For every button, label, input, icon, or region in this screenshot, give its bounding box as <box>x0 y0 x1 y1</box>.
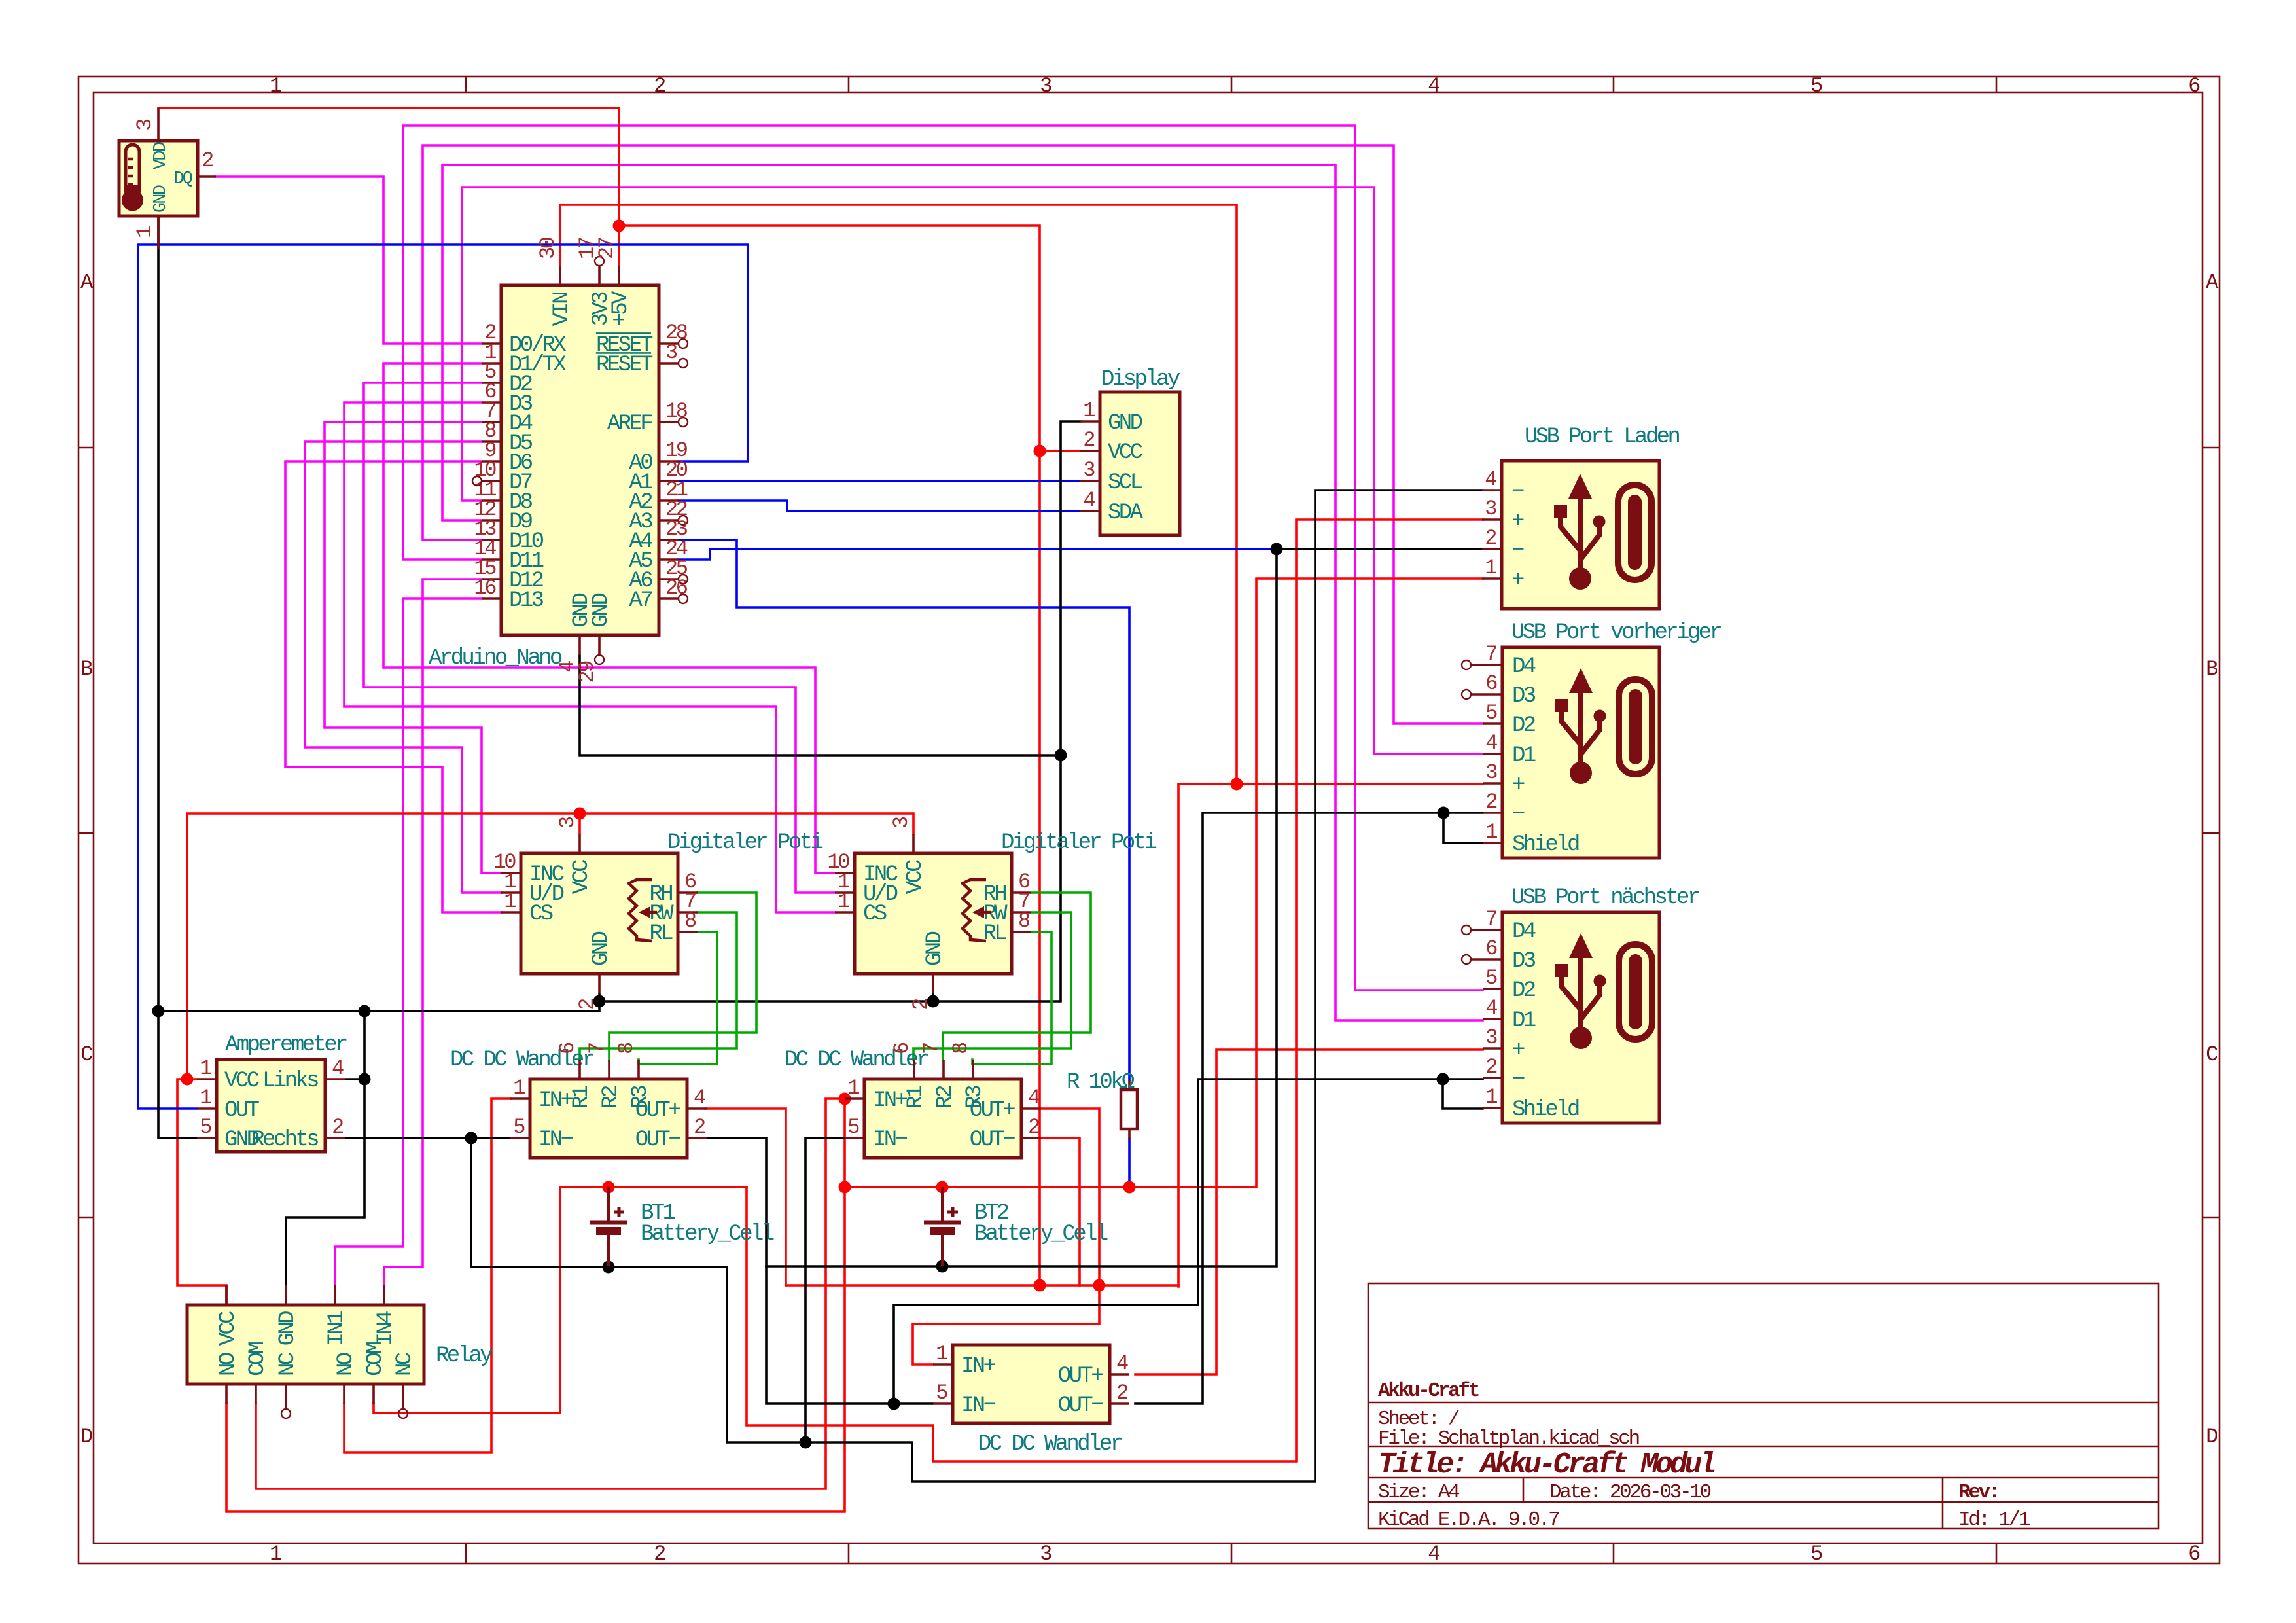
svg-text:Digitaler Poti: Digitaler Poti <box>667 830 822 855</box>
wire D11 to USB naechster D2 (magenta) <box>403 126 1483 990</box>
DC DC Wandler 2 pin 6 R1 <box>913 1060 915 1079</box>
svg-text:7: 7 <box>1485 907 1496 931</box>
svg-text:2: 2 <box>694 1115 705 1139</box>
junction vorheriger plus <box>1231 778 1243 791</box>
svg-text:GND: GND <box>1108 411 1142 436</box>
junction BT2 minus <box>936 1260 949 1273</box>
svg-text:USB Port nächster: USB Port nächster <box>1511 885 1699 910</box>
Relay bottom pin NC at 437 <box>285 1384 287 1408</box>
junction +5V <box>613 220 626 232</box>
svg-text:1: 1 <box>133 226 157 238</box>
svg-text:16: 16 <box>474 576 496 600</box>
DC DC Wandler 3 pin 1 IN+ <box>933 1363 953 1366</box>
Digitaler Poti 1 pin 8 RL <box>678 931 698 933</box>
wire DCDC2 IN- feed (black) <box>805 1138 845 1442</box>
Digitaler Poti 1 pin 1 CS <box>501 911 521 914</box>
svg-text:VCC: VCC <box>1108 440 1142 465</box>
wire Poti1 VCC drop (red) <box>578 813 581 834</box>
wire DCDC3 OUT+ to USB naechster plus (red) <box>1135 1050 1483 1374</box>
wire Display VCC stub join (red) <box>1040 450 1080 452</box>
wire VIN rail (red) <box>560 205 1237 784</box>
svg-text:8: 8 <box>684 909 696 933</box>
junction BT2 plus <box>936 1181 949 1194</box>
svg-text:Id: 1/1: Id: 1/1 <box>1958 1508 2030 1531</box>
svg-text:KiCad E.D.A. 9.0.7: KiCad E.D.A. 9.0.7 <box>1378 1508 1559 1531</box>
svg-text:IN−: IN− <box>539 1128 573 1152</box>
Arduino pin 18 AREF <box>659 421 679 423</box>
USB vorheriger pin 1 Shield <box>1483 842 1502 844</box>
svg-text:R2: R2 <box>933 1086 958 1109</box>
svg-text:GND: GND <box>151 185 171 213</box>
junction Amperemeter VCC <box>181 1073 194 1086</box>
svg-text:5: 5 <box>847 1115 859 1139</box>
USB Port nächster usb icon <box>1555 933 1606 1049</box>
svg-text:6: 6 <box>1485 936 1497 961</box>
svg-text:1: 1 <box>270 74 281 98</box>
USB Laden pin 3 + <box>1482 518 1502 521</box>
USB naechster pin 3 + <box>1483 1047 1502 1050</box>
svg-text:Rev:: Rev: <box>1958 1481 1998 1504</box>
wire D3 to Poti2 CS (magenta) <box>344 402 835 912</box>
junction minus top <box>1271 543 1283 556</box>
svg-text:VCC: VCC <box>569 860 594 895</box>
Digitaler Poti 2 pin 1 U/D <box>835 891 855 894</box>
svg-text:NO: NO <box>216 1353 241 1376</box>
svg-text:RL: RL <box>649 921 673 946</box>
wire BT2 minus rail (black) <box>766 549 1483 1266</box>
wire D2 to Poti2 U/D (magenta) <box>364 383 835 893</box>
Digitaler Poti 2 pin 2 GND <box>932 974 934 993</box>
DC DC Wandler 2 body <box>864 1079 1021 1158</box>
svg-text:Relay: Relay <box>436 1344 493 1368</box>
junction Links <box>359 1073 371 1086</box>
svg-text:NC: NC <box>393 1353 417 1376</box>
USB naechster pin 1 Shield <box>1483 1107 1502 1109</box>
svg-text:D2: D2 <box>1512 713 1535 738</box>
wire OUT rail (red) <box>786 1284 1178 1287</box>
Relay bottom pin COM at 571 <box>372 1384 375 1404</box>
svg-text:A7: A7 <box>629 588 652 613</box>
wire Rechts IN- rail (black) <box>345 1137 510 1139</box>
svg-text:NC: NC <box>275 1353 300 1376</box>
svg-text:3: 3 <box>889 817 913 829</box>
resistor R1 leads <box>1128 1080 1131 1090</box>
svg-text:AREF: AREF <box>607 412 652 437</box>
DC DC Wandler 1 pin 6 R1 <box>578 1060 581 1079</box>
battery BT2 plus sign <box>947 1211 958 1214</box>
USB naechster pin 4 D1 <box>1483 1018 1502 1020</box>
wire A1 to Display SCL (blue) <box>679 480 1080 482</box>
svg-text:VCC: VCC <box>224 1069 259 1094</box>
Digitaler Poti 2 pin 7 RW <box>1012 911 1031 914</box>
svg-text:2: 2 <box>1485 526 1496 550</box>
Amperemeter pin 4 Links <box>325 1078 345 1080</box>
wire Poti1 GND stub (black) <box>598 993 601 1001</box>
wire Poti2 GND stub (black) <box>932 993 934 1001</box>
junction Poti2 GND <box>927 995 940 1008</box>
Arduino pin 25 A6 <box>659 578 679 580</box>
USB Laden pin 1 + <box>1482 577 1502 580</box>
wire Links stub (black) <box>345 1078 364 1080</box>
Arduino pin 1 D1/TX <box>482 362 501 365</box>
border column ticks bottom <box>465 1543 467 1563</box>
wire A4 to R 10k (blue) <box>679 540 1129 1080</box>
svg-text:IN−: IN− <box>873 1128 908 1152</box>
Digitaler Poti 1 pin 1 U/D <box>501 891 521 894</box>
junction OUT rail a <box>1034 1279 1046 1292</box>
Arduino pin 27 +5V <box>618 266 620 285</box>
Digitaler Poti 1 pin 7 RW <box>678 911 698 914</box>
svg-text:26: 26 <box>665 576 688 600</box>
svg-text:1: 1 <box>847 1076 859 1100</box>
svg-text:5: 5 <box>1485 701 1497 725</box>
svg-text:4: 4 <box>1428 74 1439 98</box>
Display pin 2 VCC <box>1080 450 1100 452</box>
USB vorheriger pin 6 D3 <box>1472 693 1502 696</box>
wire GND rail left (black) <box>158 1001 599 1011</box>
svg-text:3: 3 <box>1485 1026 1497 1050</box>
junction GND display <box>1055 749 1067 762</box>
svg-text:R3: R3 <box>628 1086 653 1109</box>
junction Poti1 GND <box>593 995 606 1008</box>
title block column dividers <box>1523 1478 1525 1502</box>
USB vorheriger pin 7 D4 <box>1472 664 1502 666</box>
svg-text:IN+: IN+ <box>873 1088 908 1113</box>
DC DC Wandler 2 pin 2 OUT- <box>1021 1137 1041 1139</box>
svg-text:5: 5 <box>1810 74 1822 98</box>
wire GND arduino display (black) <box>580 655 1061 755</box>
wire A0 to Amperemeter OUT (blue) <box>138 245 748 1109</box>
svg-text:2: 2 <box>332 1115 343 1139</box>
svg-text:2: 2 <box>654 1542 665 1566</box>
Arduino pin 5 D2 <box>482 382 501 384</box>
wire Relay COM2 to BT1 plus (red) <box>374 1187 560 1413</box>
svg-text:D4: D4 <box>1512 919 1536 944</box>
title block frame <box>1368 1283 2159 1529</box>
svg-text:D4: D4 <box>1512 654 1536 679</box>
DC DC Wandler 1 pin 1 IN+ <box>510 1097 530 1100</box>
battery BT2 body <box>941 1187 944 1221</box>
svg-text:OUT−: OUT− <box>635 1128 680 1152</box>
svg-text:Title: Akku-Craft Modul: Title: Akku-Craft Modul <box>1378 1448 1715 1482</box>
svg-text:−: − <box>1511 480 1524 505</box>
svg-text:IN4: IN4 <box>374 1311 398 1346</box>
svg-text:4: 4 <box>1083 488 1095 512</box>
svg-text:R2: R2 <box>599 1086 624 1109</box>
svg-text:30: 30 <box>536 237 560 259</box>
svg-text:1: 1 <box>513 1076 525 1100</box>
wire DCDC1 OUT+ drop (red) <box>706 1109 786 1285</box>
svg-text:Display: Display <box>1101 367 1180 392</box>
Relay top pin IN4 <box>383 1285 385 1305</box>
DC DC Wandler 2 pin 4 OUT+ <box>1021 1107 1041 1110</box>
svg-text:IN−: IN− <box>961 1393 996 1418</box>
svg-text:−: − <box>1512 802 1525 827</box>
Digitaler Poti 2 pin 8 RL <box>1012 931 1031 933</box>
svg-text:7: 7 <box>1485 642 1496 666</box>
svg-text:File: Schaltplan.kicad_sch: File: Schaltplan.kicad_sch <box>1378 1427 1639 1450</box>
Digitaler Poti 1 body <box>521 853 678 974</box>
svg-text:D: D <box>80 1425 92 1449</box>
Arduino Nano U2 body <box>501 285 659 635</box>
wire Poti2 RW to DCDC2 R1 (green) <box>913 912 1071 1060</box>
wire D6 to Poti1 CS (magenta) <box>285 461 501 912</box>
Arduino pin 9 D6 <box>482 460 501 463</box>
svg-text:4: 4 <box>1485 996 1497 1020</box>
svg-text:D3: D3 <box>1512 684 1536 709</box>
svg-text:6: 6 <box>556 1043 580 1054</box>
Arduino pin 14 D11 <box>482 558 501 561</box>
Arduino pin 22 A3 <box>659 519 679 522</box>
wire A5 to minus junction (blue) <box>679 549 1277 560</box>
svg-text:IN+: IN+ <box>961 1354 996 1379</box>
Arduino pin 23 A4 <box>659 539 679 541</box>
wire USB Laden plus pin1 to BT rail (red) <box>845 579 1483 1187</box>
junction GND temp <box>152 1005 165 1018</box>
Digitaler Poti 1 pin 10 INC <box>501 872 521 874</box>
svg-text:IN1: IN1 <box>325 1311 349 1346</box>
wire GND rail right (black) <box>599 421 1080 1001</box>
svg-text:7: 7 <box>585 1043 609 1054</box>
USB vorheriger pin 3 + <box>1483 782 1502 785</box>
svg-text:−: − <box>1512 1067 1525 1092</box>
border row ticks right <box>2202 447 2219 449</box>
svg-text:GND: GND <box>589 593 614 628</box>
svg-text:1: 1 <box>270 1542 281 1566</box>
svg-text:Battery_Cell: Battery_Cell <box>641 1222 774 1247</box>
wire DCDC3 in- net (black) <box>894 1079 1483 1404</box>
Digitaler Poti 2 pin 3 VCC <box>912 834 915 853</box>
Arduino pin 24 A5 <box>659 558 679 561</box>
svg-text:3: 3 <box>133 119 157 131</box>
svg-text:5: 5 <box>513 1115 525 1139</box>
Relay top pin GND <box>285 1285 287 1305</box>
Amperemeter pin 2 Rechts <box>325 1137 345 1139</box>
wire Poti1 RW to DCDC1 R1 (green) <box>580 912 737 1060</box>
svg-text:1: 1 <box>1485 820 1497 844</box>
svg-text:Links: Links <box>262 1069 318 1094</box>
Digitaler Poti 1 pin 3 VCC <box>578 834 581 853</box>
svg-text:D1: D1 <box>1512 743 1536 768</box>
svg-text:GND: GND <box>275 1311 300 1346</box>
Digitaler Poti 1 pin 2 GND <box>598 974 601 993</box>
svg-text:1: 1 <box>1485 556 1496 580</box>
svg-text:3: 3 <box>1485 497 1496 521</box>
svg-text:USB Port vorheriger: USB Port vorheriger <box>1511 620 1721 645</box>
Arduino pin 6 D3 <box>482 401 501 404</box>
DC DC Wandler 2 pin 1 IN+ <box>845 1097 864 1100</box>
Relay K1 body <box>187 1305 424 1384</box>
svg-text:B: B <box>80 657 92 681</box>
DC DC Wandler 1 pin 2 OUT- <box>687 1137 707 1139</box>
USB naechster pin 6 D3 <box>1472 958 1502 961</box>
Arduino pin 21 A2 <box>659 499 679 502</box>
svg-text:Digitaler Poti: Digitaler Poti <box>1001 830 1156 855</box>
wire D4 to Poti1 INC (magenta) <box>325 422 501 873</box>
Arduino pin 26 A7 <box>659 597 679 600</box>
Digitaler Poti 1 potentiometer symbol <box>629 880 652 941</box>
Digitaler Poti 1 pin 6 RH <box>678 891 698 894</box>
svg-text:+: + <box>1512 1038 1525 1063</box>
svg-text:4: 4 <box>1485 467 1496 491</box>
Digitaler Poti 2 body <box>855 853 1012 974</box>
svg-text:2: 2 <box>654 74 665 98</box>
svg-text:Arduino_Nano: Arduino_Nano <box>429 646 562 671</box>
junction IN- rail <box>465 1132 478 1145</box>
svg-text:R3: R3 <box>963 1086 987 1109</box>
Digitaler Poti 1 wiper arrow <box>639 906 650 918</box>
wire A2 to Display SDA (blue) <box>679 501 1080 511</box>
svg-text:27: 27 <box>595 238 619 259</box>
wire Amperemeter VCC stub (red) <box>187 1078 197 1080</box>
svg-text:VIN: VIN <box>550 293 574 327</box>
Amperemeter pin 1 VCC <box>197 1078 217 1080</box>
Relay bottom pin NC at 616 <box>402 1384 404 1408</box>
svg-text:Amperemeter: Amperemeter <box>225 1033 347 1058</box>
svg-text:29: 29 <box>575 662 599 683</box>
USB Port vorheriger usb icon <box>1555 668 1606 784</box>
temperature sensor pin 3 VDD <box>157 108 160 141</box>
Display pin 3 SCL <box>1080 480 1100 482</box>
svg-text:4: 4 <box>1485 731 1497 755</box>
wire IN- rail to bottom (black) <box>471 490 1483 1482</box>
wire BT2 minus stub (black) <box>941 1233 944 1266</box>
temperature sensor thermometer icon <box>126 145 139 197</box>
svg-text:1: 1 <box>200 1086 211 1110</box>
svg-text:6: 6 <box>2188 74 2200 98</box>
svg-text:D3: D3 <box>1512 949 1536 974</box>
Relay bottom pin NO at 346 <box>225 1384 228 1404</box>
USB Port Laden J1 body <box>1502 461 1659 609</box>
Arduino pin 2 D0/RX <box>482 342 501 345</box>
svg-text:Shield: Shield <box>1512 1097 1579 1122</box>
wire D12 to Relay IN4 (magenta) <box>384 579 482 1285</box>
junction BT1 plus <box>603 1181 615 1194</box>
svg-text:+: + <box>1511 509 1524 534</box>
Arduino pin 16 D13 <box>482 597 501 600</box>
svg-text:3: 3 <box>1485 760 1497 785</box>
svg-text:B: B <box>2206 657 2217 681</box>
svg-text:3: 3 <box>556 817 580 829</box>
wire D8 to USB vorheriger D1 (magenta) <box>462 187 1483 754</box>
svg-text:D2: D2 <box>1512 978 1535 1003</box>
junction vorheriger minus <box>1438 807 1450 819</box>
wire Poti1 RL to DCDC1 R3 (green) <box>639 932 717 1064</box>
USB Laden pin 4 − <box>1482 489 1502 491</box>
wire R 10k bottom (blue) <box>1128 1139 1131 1187</box>
wire temp VDD to Arduino +5V (red) <box>158 108 619 266</box>
svg-text:3: 3 <box>1040 1542 1051 1566</box>
svg-text:+5V: +5V <box>609 291 633 327</box>
svg-text:4: 4 <box>1028 1086 1040 1110</box>
DC DC Wandler 3 pin 4 OUT+ <box>1110 1373 1129 1376</box>
DC DC Wandler 1 body <box>530 1079 687 1158</box>
wire vorheriger shield tie (black) <box>1443 813 1483 843</box>
svg-text:5: 5 <box>200 1115 211 1139</box>
Digitaler Poti 2 potentiometer symbol <box>963 880 986 941</box>
wire Poti2 RH to DCDC2 R2 (green) <box>943 893 1091 1060</box>
junction Display VCC <box>1034 445 1046 457</box>
Arduino pin 10 D7 <box>482 480 501 482</box>
USB Port Laden usb icon <box>1554 474 1606 590</box>
wire DCDC1 OUT- to DCDC3 IN- (black) <box>706 1138 933 1404</box>
svg-text:R1: R1 <box>569 1086 594 1109</box>
svg-text:8: 8 <box>614 1043 639 1054</box>
svg-text:5: 5 <box>1810 1542 1822 1566</box>
DC DC Wandler 2 pin 7 R2 <box>942 1060 945 1079</box>
Relay bottom pin COM at 391 <box>255 1384 257 1404</box>
wire junction to DCDC3 IN+ (red) <box>913 1285 1099 1364</box>
svg-text:4: 4 <box>332 1056 344 1080</box>
wire Poti2 RL to DCDC2 R3 (green) <box>972 932 1051 1064</box>
svg-text:USB Port Laden: USB Port Laden <box>1525 425 1679 450</box>
svg-text:−: − <box>1511 539 1524 563</box>
Relay bottom pin NO at 526 <box>343 1384 345 1404</box>
Digitaler Poti 2 pin 6 RH <box>1012 891 1031 894</box>
svg-text:1: 1 <box>504 889 516 914</box>
svg-text:2: 2 <box>1485 790 1496 814</box>
svg-text:1: 1 <box>838 889 849 914</box>
battery BT1 body <box>607 1187 610 1221</box>
svg-text:4: 4 <box>1428 1542 1439 1566</box>
border row ticks left <box>79 447 94 449</box>
wire Relay COM1 rail (red) <box>256 1099 845 1489</box>
svg-text:4: 4 <box>1116 1351 1128 1376</box>
USB vorheriger pin 2 − <box>1483 811 1502 814</box>
Digitaler Poti 2 pin 10 INC <box>835 872 855 874</box>
DC DC Wandler 2 pin 5 IN- <box>845 1137 864 1139</box>
svg-text:2: 2 <box>1083 428 1094 452</box>
svg-text:Akku-Craft: Akku-Craft <box>1378 1380 1479 1402</box>
svg-text:3: 3 <box>1083 458 1095 482</box>
USB naechster pin 2 − <box>1483 1077 1502 1079</box>
svg-text:COM: COM <box>245 1342 270 1376</box>
svg-text:6: 6 <box>1485 671 1497 696</box>
temperature sensor U1 body <box>119 141 198 216</box>
wire Relay NO1 rail (red) <box>226 1099 845 1512</box>
svg-text:3: 3 <box>665 340 677 365</box>
junction BT rail corner <box>839 1181 851 1194</box>
svg-text:VDD: VDD <box>151 142 171 169</box>
svg-text:2: 2 <box>909 999 933 1010</box>
svg-text:CS: CS <box>529 902 553 927</box>
Amperemeter U4 body <box>217 1060 325 1152</box>
Amperemeter pin 1 OUT <box>197 1107 217 1110</box>
svg-text:RESET: RESET <box>596 353 653 378</box>
svg-text:+: + <box>1512 773 1525 798</box>
svg-text:Date: 2026-03-10: Date: 2026-03-10 <box>1549 1481 1711 1504</box>
svg-text:7: 7 <box>919 1043 944 1054</box>
svg-text:2: 2 <box>1028 1115 1039 1139</box>
svg-text:OUT+: OUT+ <box>1058 1364 1103 1389</box>
svg-text:IN+: IN+ <box>539 1088 573 1113</box>
wire Links junction vertical (black) <box>286 1011 364 1305</box>
USB vorheriger pin 4 D1 <box>1483 753 1502 755</box>
svg-text:18: 18 <box>665 399 688 423</box>
svg-text:+: + <box>1511 568 1524 593</box>
junction DCDC3 IN- <box>888 1398 900 1410</box>
svg-text:6: 6 <box>890 1043 914 1054</box>
Arduino pin 19 A0 <box>659 460 679 463</box>
Arduino pin 10 D7 open circle <box>472 476 482 486</box>
junction DCDC2 net <box>1093 1279 1106 1292</box>
USB vorheriger pin 5 D2 <box>1483 722 1502 725</box>
svg-text:Rechts: Rechts <box>251 1128 318 1152</box>
svg-text:Shield: Shield <box>1512 832 1579 857</box>
wire D9 to USB naechster D1 (magenta) <box>442 165 1483 1020</box>
DC DC Wandler 3 body <box>953 1345 1110 1423</box>
svg-text:3: 3 <box>1040 74 1051 98</box>
